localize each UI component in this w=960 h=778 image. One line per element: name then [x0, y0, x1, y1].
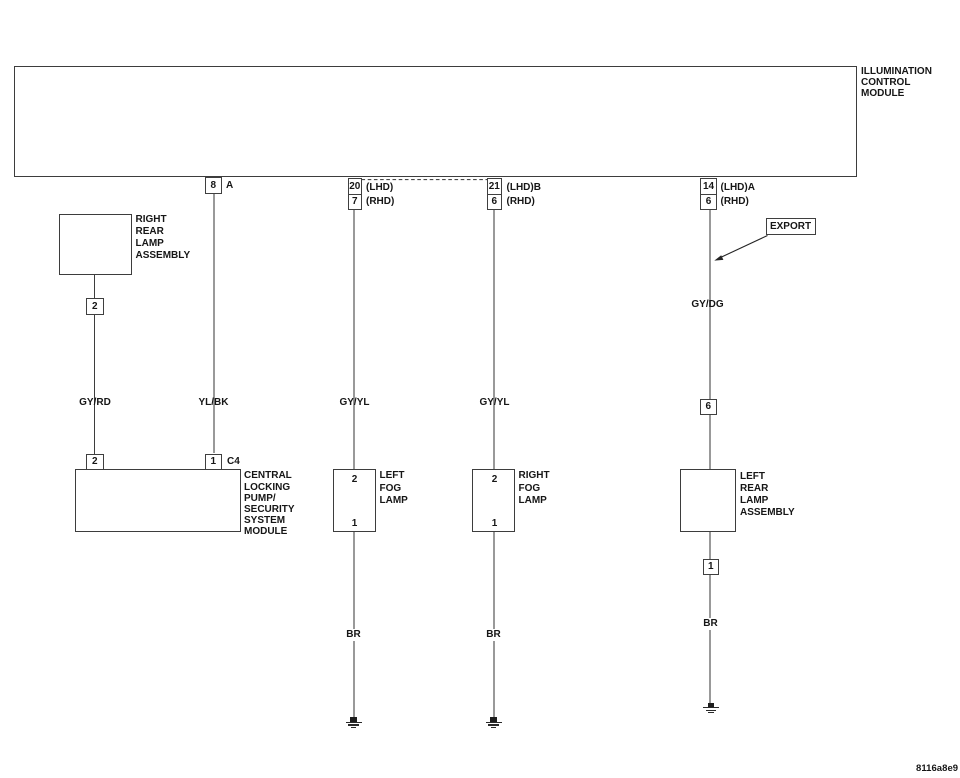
label: (LHD)B/(RHD) for pin 21/6	[507, 181, 541, 210]
label: connector A	[226, 180, 233, 192]
connector pin 8 (module, wire A)	[205, 177, 222, 194]
wire label: GY/YL (right)	[465, 397, 525, 409]
ground G2 (right fog lamp)	[485, 717, 502, 729]
wire label: GY/RD	[65, 397, 125, 409]
pin 2 label inside left fog lamp	[325, 474, 385, 486]
wire D: pin 1 down to ground (gray)	[709, 575, 711, 704]
ground G1 (left fog lamp)	[345, 717, 362, 729]
connector pin 2 (right rear lamp)	[86, 298, 104, 315]
wire B: left fog lamp down to ground (gray)	[353, 532, 355, 718]
connector pins 14(LHD)A/6(RHD) (module, left rear lamp wire)	[700, 178, 717, 210]
label: RIGHT FOG LAMP	[519, 470, 550, 507]
wire label: GY/DG	[678, 299, 738, 311]
pin 1 label inside left fog lamp	[325, 518, 385, 530]
label: diagram id 8116a8e9	[916, 764, 958, 774]
wire B: module pin 7 down to left fog lamp (gray)	[353, 210, 355, 470]
dashed wire between connector 20 and connector 21	[362, 179, 488, 181]
wire C: right fog lamp down to ground (gray)	[493, 532, 495, 718]
label: LEFT FOG LAMP	[380, 470, 408, 507]
op module U1: ILLUMINATION CONTROL MODULE box	[14, 66, 857, 177]
connector pins 20(LHD)/7(RHD) (module, left fog wire)	[348, 178, 363, 210]
pin 2 label inside right fog lamp	[465, 474, 525, 486]
component: RIGHT FOG LAMP box	[472, 469, 516, 532]
pin 1 label inside right fog lamp	[465, 518, 525, 530]
component: RIGHT REAR LAMP ASSEMBLY box	[59, 214, 132, 275]
component: LEFT FOG LAMP box	[333, 469, 377, 532]
wire: pin 2 down to pump module pin 2 (black)	[94, 315, 95, 454]
wire label: BR (right fog)	[464, 629, 524, 641]
label: C4	[227, 456, 240, 468]
connector pins 21(LHD)B/6(RHD) (module, right fog wire)	[487, 178, 502, 210]
wire D: module pin 6 down to in-line pin 6 (gray)	[709, 210, 711, 400]
wire D: pin 6 down to left rear lamp assembly (gray)	[709, 415, 711, 469]
wire label: BR (left fog)	[324, 629, 384, 641]
wire D: left rear lamp assembly down to pin 1 (gray)	[709, 532, 711, 559]
ground G3 (left rear lamp)	[703, 703, 720, 715]
wire label: GY/YL (left)	[325, 397, 385, 409]
EXPORT callout box	[766, 218, 816, 235]
component: CENTRAL LOCKING PUMP / SECURITY SYSTEM MODULE box	[75, 469, 241, 532]
label: CENTRAL LOCKING PUMP/ SECURITY SYSTEM MODULE	[244, 470, 295, 537]
wire: right rear lamp to pin 2 (black)	[94, 274, 95, 299]
label: (LHD)/(RHD) for pin 20/7	[366, 181, 394, 210]
label: (LHD)A/(RHD) for pin 14/6	[721, 181, 755, 210]
connector pin 2 (pump module, from right rear lamp)	[86, 454, 104, 470]
wire label: BR (left rear)	[681, 618, 741, 630]
connector pin 1 C4 (pump module, wire A)	[205, 454, 222, 470]
component: LEFT REAR LAMP ASSEMBLY box	[680, 469, 737, 532]
wire C: module pin 6 down to right fog lamp (gray)	[493, 210, 495, 470]
connector pin 1 (left rear lamp, wire D)	[703, 559, 720, 575]
label: ILLUMINATION CONTROL MODULE	[861, 66, 932, 100]
wire A: module pin 8 down to pump pin 1 (gray)	[213, 194, 215, 454]
label: LEFT REAR LAMP ASSEMBLY	[740, 471, 795, 520]
EXPORT callout arrow	[714, 236, 767, 261]
wire label: YL/BK	[184, 397, 244, 409]
label: RIGHT REAR LAMP ASSEMBLY	[136, 214, 191, 261]
connector pin 6 (in-line, wire D)	[700, 399, 718, 415]
